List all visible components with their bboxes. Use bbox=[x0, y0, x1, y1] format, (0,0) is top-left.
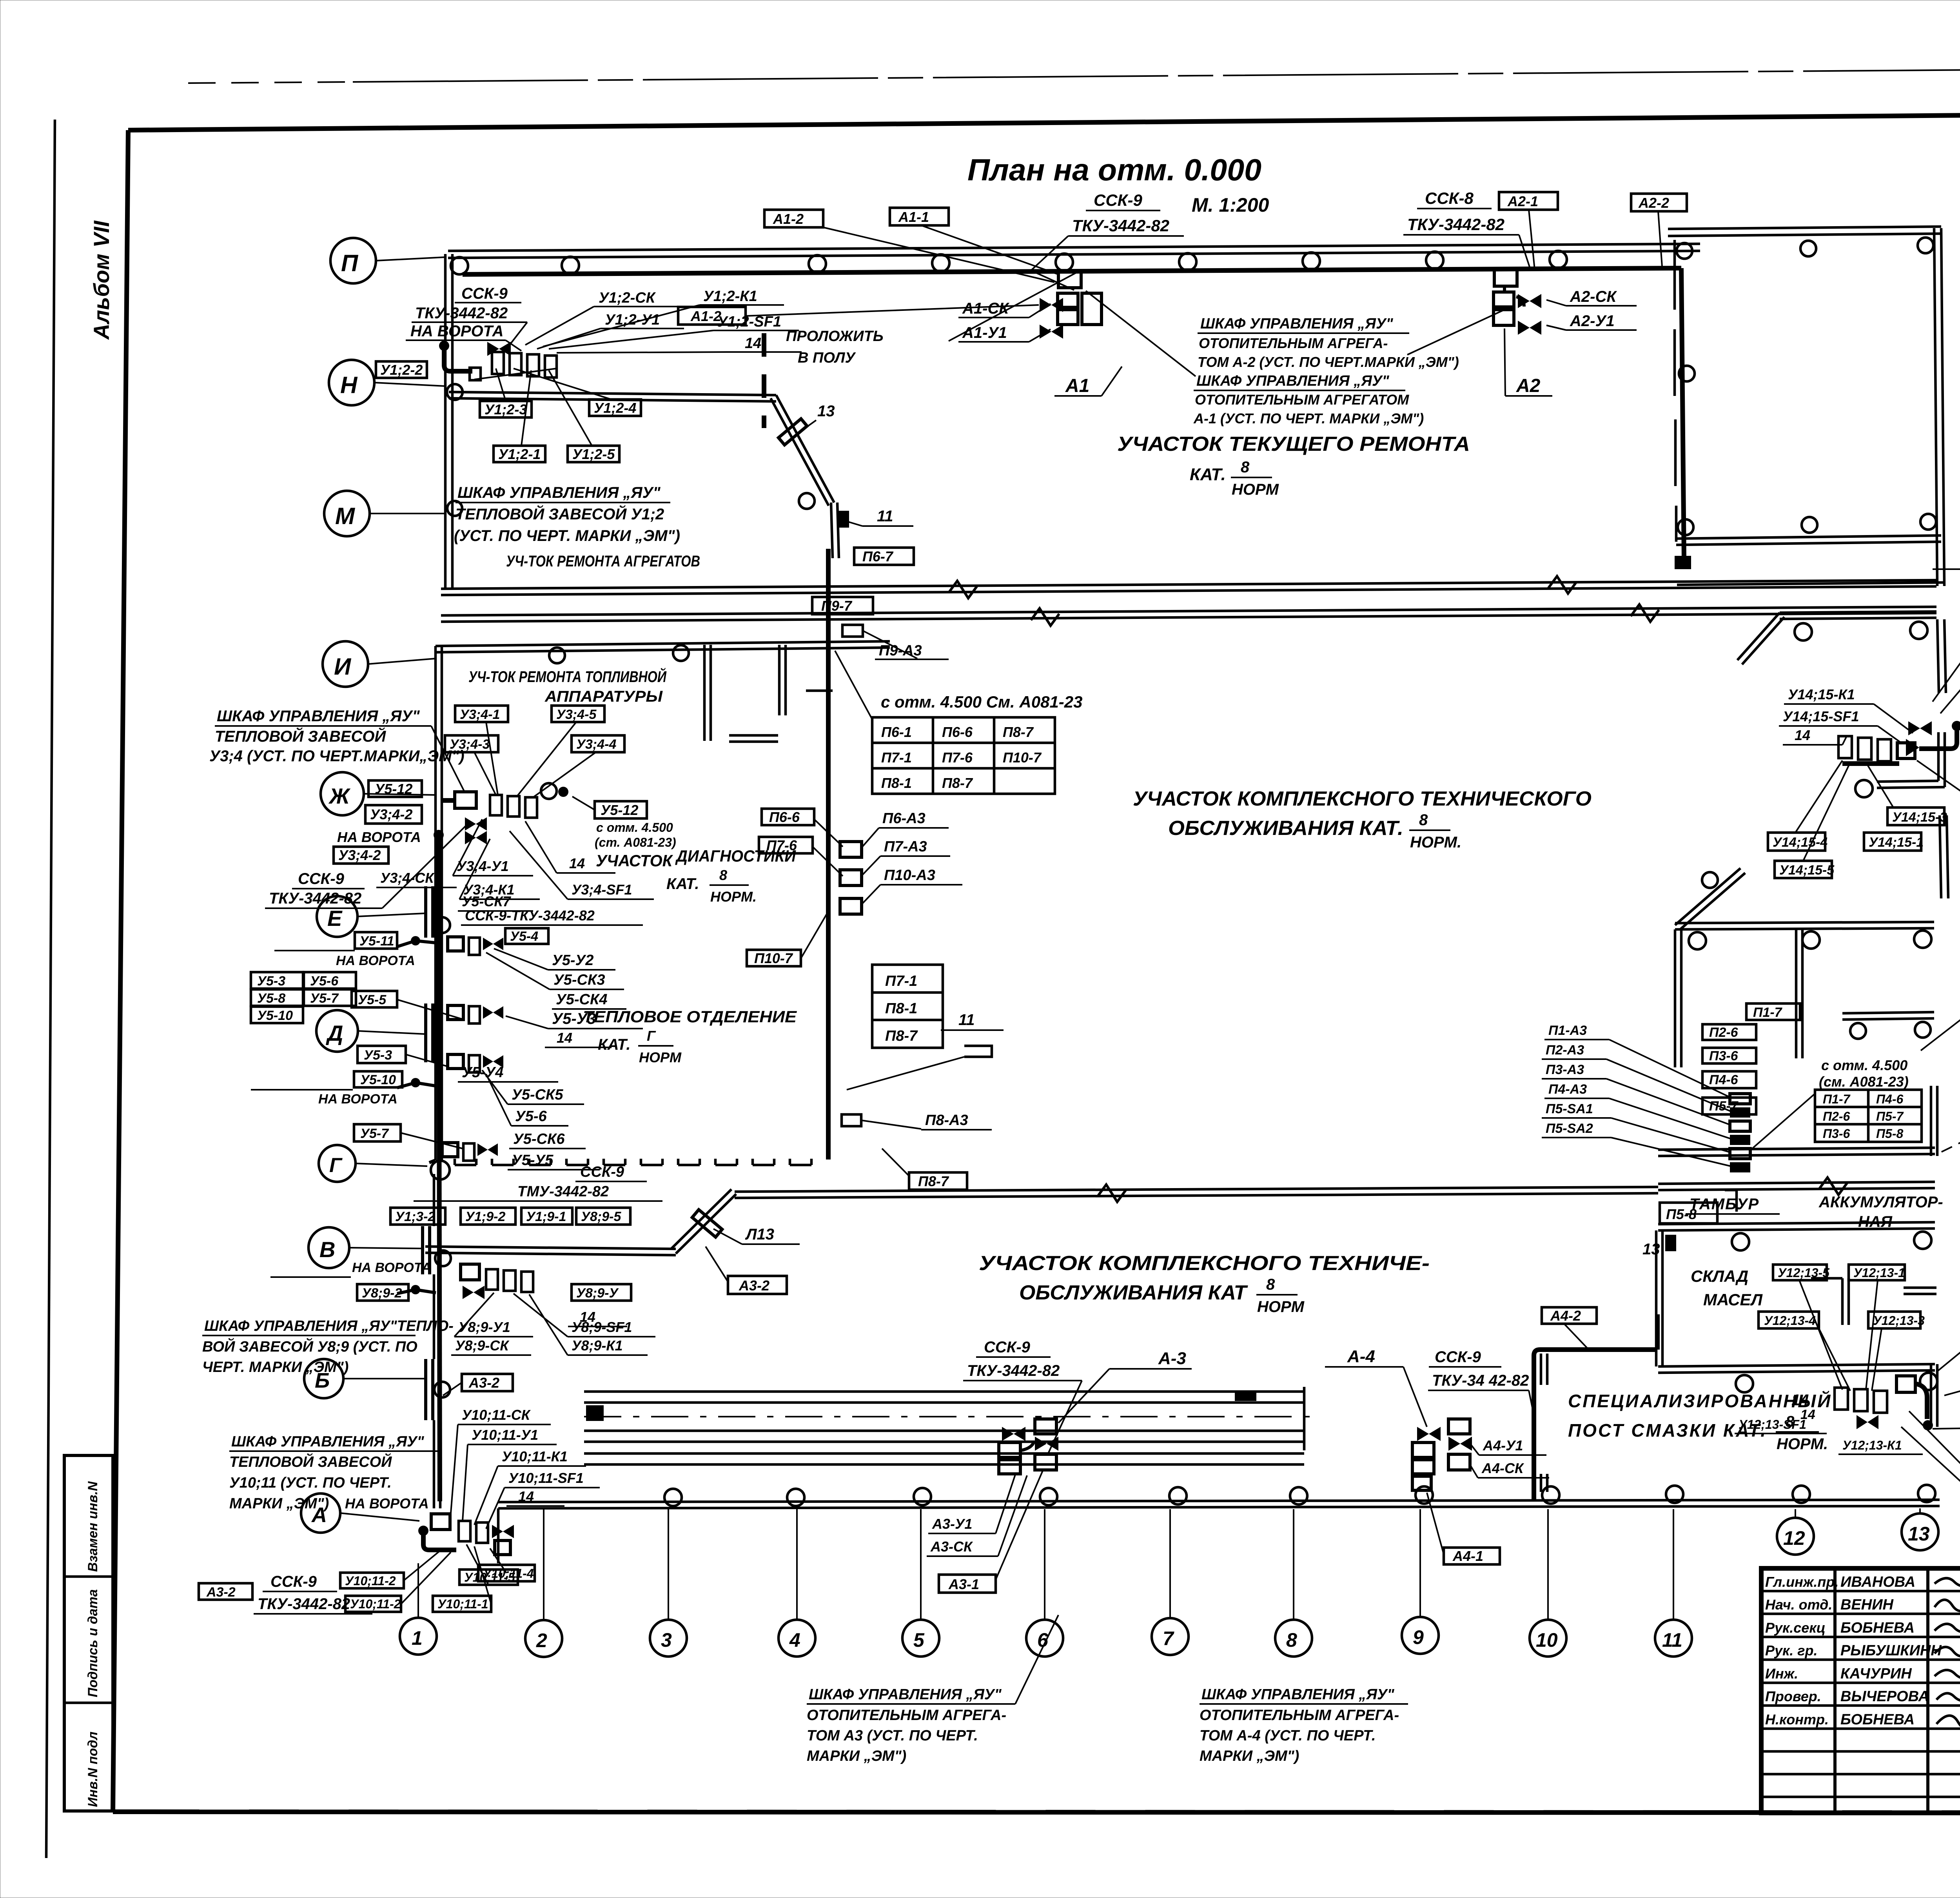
svg-text:М. 1:200: М. 1:200 bbox=[1192, 194, 1269, 216]
svg-text:У14;15-4: У14;15-4 bbox=[1773, 835, 1828, 850]
svg-text:КАТ.: КАТ. bbox=[666, 875, 699, 893]
svg-text:П4-6: П4-6 bbox=[1876, 1092, 1903, 1106]
svg-text:У12;13-3: У12;13-3 bbox=[1873, 1314, 1925, 1328]
svg-text:П2-А3: П2-А3 bbox=[1546, 1043, 1584, 1058]
top-right room inner left wall segments bbox=[1673, 240, 1676, 310]
number circle 13 bbox=[1902, 1513, 1938, 1550]
svg-text:У3;4-SF1: У3;4-SF1 bbox=[572, 882, 632, 898]
boxed label U5-12 bbox=[368, 780, 422, 797]
cable riser right bbox=[1681, 268, 1684, 561]
number circle 11 bbox=[1655, 1620, 1692, 1657]
svg-text:П8-7: П8-7 bbox=[942, 775, 973, 791]
svg-text:У8;9-2: У8;9-2 bbox=[362, 1286, 402, 1301]
svg-text:Альбом VII: Альбом VII bbox=[89, 220, 114, 340]
svg-text:Рук. гр.: Рук. гр. bbox=[1765, 1642, 1818, 1658]
boxed label A3-2 b bbox=[462, 1374, 513, 1391]
boxed label P6-7 bbox=[854, 548, 914, 565]
svg-text:ВЫЧЕРОВА: ВЫЧЕРОВА bbox=[1840, 1688, 1929, 1705]
boxed label U1;2-1 bbox=[494, 446, 545, 462]
svg-text:14: 14 bbox=[1795, 727, 1810, 743]
svg-text:А1-2: А1-2 bbox=[773, 211, 804, 227]
number circle 4 bbox=[779, 1620, 815, 1657]
svg-text:У3;4-2: У3;4-2 bbox=[370, 806, 412, 822]
boxed label A3-1 bbox=[939, 1575, 996, 1593]
wall row I double bbox=[436, 641, 890, 646]
boxed label U3;4-2 bbox=[365, 805, 422, 824]
boxed label U8;9-2 bbox=[357, 1284, 408, 1301]
break mark 3 bbox=[1548, 576, 1577, 593]
svg-text:П1-7: П1-7 bbox=[1823, 1092, 1851, 1106]
svg-text:П9-А3: П9-А3 bbox=[879, 642, 922, 659]
svg-text:У1;2-К1: У1;2-К1 bbox=[703, 288, 757, 305]
svg-text:П6-6: П6-6 bbox=[769, 809, 800, 825]
svg-text:НА ВОРОТА: НА ВОРОТА bbox=[410, 323, 503, 340]
svg-text:НОРМ.: НОРМ. bbox=[1410, 834, 1461, 851]
svg-text:7: 7 bbox=[1163, 1628, 1174, 1649]
svg-text:У8;9-SF1: У8;9-SF1 bbox=[572, 1319, 632, 1335]
A4 device cluster bbox=[1417, 1427, 1441, 1441]
svg-text:П5-7: П5-7 bbox=[1709, 1099, 1739, 1114]
svg-text:ШКАФ УПРАВЛЕНИЯ „ЯУ": ШКАФ УПРАВЛЕНИЯ „ЯУ" bbox=[231, 1433, 425, 1450]
svg-text:У3;4-У1: У3;4-У1 bbox=[457, 858, 509, 874]
boxed label A2-2 bbox=[1631, 194, 1687, 211]
A3 device cluster bbox=[1002, 1427, 1025, 1441]
svg-text:П6-6: П6-6 bbox=[942, 724, 973, 740]
svg-text:ДИАГНОСТИКИ: ДИАГНОСТИКИ bbox=[675, 847, 796, 865]
svg-text:ТКУ-3442-82: ТКУ-3442-82 bbox=[1407, 215, 1504, 234]
boxed label U1;2-2 bbox=[376, 361, 427, 378]
svg-text:ССК-9: ССК-9 bbox=[298, 870, 345, 887]
svg-text:14: 14 bbox=[557, 1030, 572, 1046]
svg-text:У5-3: У5-3 bbox=[364, 1048, 392, 1063]
column row letter E bbox=[317, 896, 358, 937]
boxed labels U8;9 row bbox=[390, 1208, 445, 1225]
right wall segments bbox=[1937, 619, 1939, 693]
svg-text:ССК-9: ССК-9 bbox=[1435, 1348, 1481, 1366]
svg-text:А1-СК: А1-СК bbox=[962, 300, 1009, 317]
main cable riser bbox=[826, 549, 831, 1159]
boxed labels U10;11 bottom bbox=[340, 1573, 404, 1588]
svg-text:П5-8: П5-8 bbox=[1876, 1127, 1903, 1141]
svg-text:ССК-9: ССК-9 bbox=[984, 1339, 1031, 1356]
svg-text:ТОМ А-4 (УСТ. ПО ЧЕРТ.: ТОМ А-4 (УСТ. ПО ЧЕРТ. bbox=[1200, 1727, 1376, 1744]
boxed label U5-3 low bbox=[358, 1046, 406, 1063]
svg-text:ССК-9: ССК-9 bbox=[580, 1164, 624, 1180]
svg-text:10: 10 bbox=[1536, 1629, 1558, 1651]
number circle 8 bbox=[1275, 1620, 1312, 1657]
svg-text:П2-6: П2-6 bbox=[1823, 1109, 1850, 1123]
svg-text:Л13: Л13 bbox=[745, 1226, 774, 1243]
svg-text:У10;11-У1: У10;11-У1 bbox=[472, 1427, 538, 1443]
svg-text:У8;9-К1: У8;9-К1 bbox=[572, 1337, 623, 1354]
svg-text:НОРМ: НОРМ bbox=[639, 1049, 682, 1065]
svg-text:У5-11: У5-11 bbox=[359, 934, 394, 949]
svg-text:У8;9-5: У8;9-5 bbox=[581, 1209, 621, 1224]
svg-text:П7-А3: П7-А3 bbox=[884, 838, 927, 855]
svg-text:1: 1 bbox=[412, 1627, 423, 1649]
svg-text:11: 11 bbox=[877, 508, 893, 525]
break mark 6 bbox=[1819, 1178, 1847, 1195]
svg-text:П5-SA1: П5-SA1 bbox=[1546, 1101, 1593, 1116]
column row letter V bbox=[309, 1227, 349, 1268]
svg-text:НОРМ: НОРМ bbox=[1232, 481, 1279, 498]
svg-text:П10-7: П10-7 bbox=[754, 950, 793, 966]
svg-text:ТЕПЛОВОЙ ЗАВЕСОЙ У1;2: ТЕПЛОВОЙ ЗАВЕСОЙ У1;2 bbox=[456, 504, 664, 523]
svg-text:МАСЕЛ: МАСЕЛ bbox=[1703, 1290, 1763, 1309]
interior partition 1 bbox=[703, 645, 706, 741]
break mark 5 bbox=[1098, 1185, 1126, 1202]
svg-text:У5-6: У5-6 bbox=[515, 1108, 547, 1125]
svg-text:НА ВОРОТА: НА ВОРОТА bbox=[336, 953, 415, 968]
svg-text:ШКАФ УПРАВЛЕНИЯ „ЯУ": ШКАФ УПРАВЛЕНИЯ „ЯУ" bbox=[457, 484, 661, 501]
svg-text:У3;4 (УСТ. ПО ЧЕРТ.МАРКИ„ЭМ"): У3;4 (УСТ. ПО ЧЕРТ.МАРКИ„ЭМ") bbox=[209, 748, 465, 765]
svg-text:Инж.: Инж. bbox=[1765, 1666, 1798, 1682]
long wall pair upper bbox=[441, 580, 1936, 589]
svg-text:Г: Г bbox=[329, 1154, 343, 1177]
A1 device cluster bbox=[1058, 271, 1081, 288]
U10;11 cluster bottom bbox=[418, 1526, 428, 1536]
svg-text:ТАМБУР: ТАМБУР bbox=[1690, 1196, 1759, 1213]
svg-text:ШКАФ УПРАВЛЕНИЯ „ЯУ"ТЕПЛО-: ШКАФ УПРАВЛЕНИЯ „ЯУ"ТЕПЛО- bbox=[204, 1318, 454, 1334]
svg-text:У5-12: У5-12 bbox=[375, 781, 412, 797]
crossed circle G bbox=[431, 1161, 450, 1179]
device rect column bbox=[1730, 1094, 1750, 1104]
U5 device cluster 1 bbox=[448, 937, 463, 951]
svg-text:А2-СК: А2-СК bbox=[1570, 288, 1617, 305]
svg-text:У12;13-4: У12;13-4 bbox=[1764, 1314, 1816, 1328]
wall verticals near A4 bbox=[1540, 1354, 1543, 1385]
boxed label A1-1 bbox=[890, 208, 949, 225]
svg-text:ССК-9: ССК-9 bbox=[1094, 191, 1142, 209]
svg-text:Гл.инж.пр.: Гл.инж.пр. bbox=[1765, 1574, 1838, 1590]
left wall below I bbox=[434, 646, 437, 1160]
number circle 12 bbox=[1777, 1518, 1814, 1555]
svg-text:ССК-9: ССК-9 bbox=[270, 1573, 317, 1590]
svg-text:УЧАСТОК: УЧАСТОК bbox=[596, 851, 673, 870]
svg-text:У1;2-1: У1;2-1 bbox=[498, 446, 541, 462]
svg-text:ТКУ-3442-82: ТКУ-3442-82 bbox=[967, 1362, 1060, 1379]
boxed label U5-5 bbox=[352, 991, 397, 1007]
svg-text:А-4: А-4 bbox=[1347, 1347, 1375, 1366]
svg-text:П9-7: П9-7 bbox=[821, 598, 853, 614]
boxed label P10-7 bbox=[747, 950, 801, 966]
svg-text:У1;2-5: У1;2-5 bbox=[572, 446, 615, 462]
svg-text:А3-2: А3-2 bbox=[739, 1277, 769, 1294]
boxed label U5-7 bbox=[354, 1124, 401, 1141]
cable tray under top wall bbox=[463, 268, 1681, 274]
svg-text:У5-5: У5-5 bbox=[358, 993, 387, 1007]
svg-text:У1;2-У1: У1;2-У1 bbox=[605, 312, 660, 328]
svg-text:(УСТ. ПО ЧЕРТ. МАРКИ „ЭМ"): (УСТ. ПО ЧЕРТ. МАРКИ „ЭМ") bbox=[454, 527, 680, 544]
column row letter Zh bbox=[321, 772, 364, 815]
leaders from cluster to boxed labels bbox=[496, 368, 506, 401]
svg-text:ШКАФ УПРАВЛЕНИЯ „ЯУ": ШКАФ УПРАВЛЕНИЯ „ЯУ" bbox=[1196, 373, 1390, 389]
shinomontazh top wall bbox=[1780, 611, 1936, 613]
svg-text:АККУМУЛЯТОР-: АККУМУЛЯТОР- bbox=[1818, 1194, 1943, 1211]
svg-text:ТКУ-3442-82: ТКУ-3442-82 bbox=[415, 305, 508, 322]
svg-text:А2: А2 bbox=[1516, 376, 1541, 396]
svg-text:У5-4: У5-4 bbox=[510, 929, 538, 944]
svg-text:А4-СК: А4-СК bbox=[1481, 1460, 1524, 1476]
svg-text:УЧАСТОК КОМПЛЕКСНОГО ТЕХНИЧЕ: УЧАСТОК КОМПЛЕКСНОГО ТЕХНИЧЕ- bbox=[979, 1252, 1430, 1275]
svg-text:У5-6: У5-6 bbox=[310, 974, 339, 989]
svg-text:ВОЙ ЗАВЕСОЙ У8;9 (УСТ. ПО: ВОЙ ЗАВЕСОЙ У8;9 (УСТ. ПО bbox=[202, 1337, 417, 1355]
svg-text:ССК-9: ССК-9 bbox=[461, 285, 508, 302]
svg-text:У1;9-1: У1;9-1 bbox=[526, 1209, 566, 1224]
door jamb E bbox=[424, 886, 427, 938]
svg-text:ССК-8: ССК-8 bbox=[1425, 189, 1474, 207]
svg-text:У10;11-SF1: У10;11-SF1 bbox=[508, 1470, 584, 1486]
boxed label A1-2 bbox=[764, 210, 823, 227]
svg-text:ТОМ А3 (УСТ. ПО ЧЕРТ.: ТОМ А3 (УСТ. ПО ЧЕРТ. bbox=[807, 1727, 978, 1744]
svg-text:П5-7: П5-7 bbox=[1876, 1109, 1904, 1123]
leaders to device rects bbox=[1609, 1040, 1731, 1098]
svg-text:5: 5 bbox=[913, 1629, 925, 1651]
U5 device cluster 3 bbox=[448, 1054, 463, 1069]
lower single line of right room bbox=[1677, 582, 1944, 585]
svg-text:ПОСТ СМАЗКИ КАТ.: ПОСТ СМАЗКИ КАТ. bbox=[1568, 1420, 1767, 1441]
dashed heater wall row G bbox=[455, 1164, 811, 1167]
svg-text:НА ВОРОТА: НА ВОРОТА bbox=[337, 829, 421, 845]
svg-text:У5-12: У5-12 bbox=[601, 802, 638, 818]
svg-text:ШКАФ УПРАВЛЕНИЯ „ЯУ": ШКАФ УПРАВЛЕНИЯ „ЯУ" bbox=[1200, 316, 1394, 332]
svg-text:У14;15-1: У14;15-1 bbox=[1869, 835, 1924, 850]
sklad masel walls bbox=[1841, 1278, 1844, 1325]
svg-text:У8;9-СК: У8;9-СК bbox=[455, 1337, 510, 1354]
svg-text:У5-7: У5-7 bbox=[360, 1126, 389, 1141]
U5 device cluster 4 bbox=[442, 1143, 458, 1157]
svg-text:Инв.N подл: Инв.N подл bbox=[85, 1731, 100, 1807]
svg-text:У5-СК4: У5-СК4 bbox=[556, 991, 607, 1008]
sheet frame bottom bbox=[113, 1812, 1960, 1813]
svg-text:11: 11 bbox=[1662, 1629, 1682, 1651]
svg-text:ОБСЛУЖИВАНИЯ КАТ.: ОБСЛУЖИВАНИЯ КАТ. bbox=[1168, 817, 1403, 840]
svg-text:БОБНЕВА: БОБНЕВА bbox=[1840, 1620, 1915, 1636]
svg-text:Подпись и дата: Подпись и дата bbox=[85, 1589, 100, 1697]
svg-text:Провер.: Провер. bbox=[1765, 1688, 1821, 1704]
column circles bottom bbox=[664, 1489, 682, 1506]
column row letter G bbox=[319, 1145, 356, 1182]
L13 tilted connector bbox=[692, 1210, 722, 1237]
number circle 3 bbox=[650, 1620, 687, 1657]
wall above zaryadnaya with door bbox=[1842, 1012, 1934, 1013]
names table rows bbox=[1761, 1590, 1960, 1593]
svg-text:А4-2: А4-2 bbox=[1550, 1308, 1581, 1324]
svg-text:ВЕНИН: ВЕНИН bbox=[1840, 1597, 1894, 1613]
top-right room inner bottom wall bbox=[1676, 535, 1941, 539]
leaders from boxes to cluster bbox=[486, 722, 498, 795]
diagonal chamfer wall bbox=[676, 1194, 736, 1254]
svg-text:П3-6: П3-6 bbox=[1709, 1049, 1739, 1063]
svg-text:ОБСЛУЖИВАНИЯ КАТ: ОБСЛУЖИВАНИЯ КАТ bbox=[1019, 1281, 1248, 1304]
svg-text:П1-7: П1-7 bbox=[1753, 1005, 1783, 1020]
svg-text:У14;15-3: У14;15-3 bbox=[1892, 810, 1947, 825]
dashed line to be laid in floor bbox=[762, 333, 766, 428]
svg-text:П4-6: П4-6 bbox=[1709, 1072, 1739, 1087]
P8-A3 connector bbox=[842, 1114, 861, 1126]
svg-text:У5-7: У5-7 bbox=[310, 991, 339, 1006]
svg-text:У5-10: У5-10 bbox=[360, 1072, 396, 1087]
svg-text:9: 9 bbox=[1413, 1626, 1424, 1648]
svg-text:А2-2: А2-2 bbox=[1638, 195, 1669, 211]
left wall lower segments bbox=[433, 1174, 436, 1226]
svg-text:2: 2 bbox=[536, 1629, 547, 1651]
svg-text:А2-1: А2-1 bbox=[1507, 193, 1538, 209]
svg-text:У10;11-К1: У10;11-К1 bbox=[502, 1448, 568, 1464]
svg-text:Г: Г bbox=[647, 1028, 656, 1044]
svg-text:4: 4 bbox=[789, 1629, 800, 1651]
wall left (double) bbox=[444, 254, 447, 588]
svg-text:Б: Б bbox=[315, 1369, 330, 1392]
svg-text:У1;9-2: У1;9-2 bbox=[465, 1209, 505, 1224]
boxed label P9-7 bbox=[812, 597, 873, 614]
interior partition 2 bbox=[778, 645, 781, 715]
boxed label U5-11 bbox=[355, 932, 397, 949]
P9-A3 connector bbox=[842, 625, 863, 637]
svg-text:У5-У4: У5-У4 bbox=[462, 1064, 503, 1081]
svg-text:П6-7: П6-7 bbox=[862, 548, 894, 564]
svg-text:БОБНЕВА: БОБНЕВА bbox=[1840, 1711, 1915, 1728]
svg-text:А2-У1: А2-У1 bbox=[1570, 312, 1615, 330]
svg-text:У3;4-2: У3;4-2 bbox=[338, 847, 381, 863]
svg-text:И: И bbox=[334, 653, 352, 680]
svg-text:У5-8: У5-8 bbox=[257, 991, 285, 1006]
svg-text:Рук.секц: Рук.секц bbox=[1765, 1620, 1826, 1636]
svg-text:НОРМ: НОРМ bbox=[1257, 1298, 1305, 1316]
main title block frame bbox=[1761, 1568, 1960, 1813]
shinomontazh room walls bbox=[1675, 922, 1934, 923]
svg-text:А-1 (УСТ. ПО ЧЕРТ. МАРКИ „ЭМ": А-1 (УСТ. ПО ЧЕРТ. МАРКИ „ЭМ") bbox=[1193, 410, 1424, 426]
svg-text:МАРКИ „ЭМ"): МАРКИ „ЭМ") bbox=[1200, 1748, 1299, 1764]
boxed label A3-2 bottom left bbox=[199, 1583, 252, 1600]
diagonal wall N (double) bbox=[776, 395, 834, 503]
top-right room right wall bbox=[1934, 228, 1937, 586]
svg-text:8: 8 bbox=[1286, 1629, 1297, 1651]
svg-text:ОТОПИТЕЛЬНЫМ АГРЕГА-: ОТОПИТЕЛЬНЫМ АГРЕГА- bbox=[1200, 1707, 1399, 1724]
svg-text:У5-СК5: У5-СК5 bbox=[512, 1087, 563, 1103]
svg-text:8: 8 bbox=[1786, 1413, 1795, 1430]
svg-text:П6-А3: П6-А3 bbox=[882, 810, 926, 827]
svg-text:ОТОПИТЕЛЬНЫМ АГРЕГА-: ОТОПИТЕЛЬНЫМ АГРЕГА- bbox=[1199, 335, 1388, 351]
svg-text:Взамен инв.N: Взамен инв.N bbox=[85, 1481, 100, 1572]
boxed label A1-2 second bbox=[678, 307, 746, 325]
svg-text:П10-А3: П10-А3 bbox=[884, 867, 935, 884]
svg-text:13: 13 bbox=[1908, 1523, 1930, 1545]
break mark 4 bbox=[1631, 604, 1659, 622]
boxed label U5-10 bbox=[354, 1071, 402, 1087]
U1;2 device cluster bbox=[439, 341, 449, 351]
svg-text:ТКУ-3442-82: ТКУ-3442-82 bbox=[258, 1595, 350, 1613]
A2 device cluster bbox=[1494, 270, 1517, 286]
column row letter P bbox=[330, 238, 376, 283]
svg-text:А1: А1 bbox=[1065, 376, 1089, 396]
column circles top wall bbox=[451, 257, 468, 274]
number circle 9 bbox=[1402, 1617, 1439, 1654]
svg-text:ИВАНОВА: ИВАНОВА bbox=[1840, 1574, 1915, 1590]
svg-text:А: А bbox=[311, 1503, 327, 1527]
svg-text:У5-3: У5-3 bbox=[257, 974, 285, 989]
door jamb B bbox=[424, 1359, 427, 1420]
svg-text:У5-10: У5-10 bbox=[257, 1008, 293, 1023]
label table 3x3 bbox=[872, 717, 1055, 794]
boxed label U8;9-U bbox=[572, 1284, 631, 1301]
svg-text:Н: Н bbox=[340, 372, 358, 398]
svg-text:ТМУ-3442-82: ТМУ-3442-82 bbox=[517, 1183, 609, 1200]
svg-text:У14;15-5: У14;15-5 bbox=[1779, 863, 1835, 878]
svg-text:3: 3 bbox=[661, 1629, 672, 1651]
svg-text:П5-SA2: П5-SA2 bbox=[1546, 1121, 1593, 1136]
boxed labels U14;15-3 4 1 5 bbox=[1887, 807, 1944, 825]
svg-text:П3-А3: П3-А3 bbox=[1546, 1062, 1584, 1077]
svg-text:А3-У1: А3-У1 bbox=[932, 1516, 972, 1532]
vertical wall after diagonal bbox=[831, 503, 833, 558]
svg-text:У14;15-К1: У14;15-К1 bbox=[1788, 686, 1855, 702]
svg-text:НОРМ.: НОРМ. bbox=[710, 889, 757, 905]
svg-text:УЧ-ТОК РЕМОНТА АГРЕГАТОВ: УЧ-ТОК РЕМОНТА АГРЕГАТОВ bbox=[506, 553, 700, 570]
svg-text:У1;2-3: У1;2-3 bbox=[485, 401, 527, 417]
svg-text:П7-6: П7-6 bbox=[942, 749, 973, 766]
door jamb D bbox=[424, 1003, 427, 1062]
svg-text:14: 14 bbox=[569, 855, 585, 871]
U8;9 device cluster bbox=[461, 1264, 479, 1280]
column row letter N bbox=[329, 360, 374, 405]
boxed label U3;4-2 second bbox=[334, 847, 388, 864]
bottom wall sklad bbox=[1658, 1364, 1935, 1366]
svg-text:П8-А3: П8-А3 bbox=[925, 1112, 968, 1129]
svg-text:В: В bbox=[319, 1237, 335, 1262]
svg-text:А4-1: А4-1 bbox=[1452, 1548, 1483, 1564]
svg-text:КАТ.: КАТ. bbox=[598, 1036, 630, 1053]
svg-text:П8-1: П8-1 bbox=[881, 775, 912, 791]
svg-text:НОРМ.: НОРМ. bbox=[1777, 1435, 1828, 1453]
svg-text:У12;13-5: У12;13-5 bbox=[1778, 1266, 1830, 1280]
cable end tick 13 bbox=[1675, 556, 1691, 569]
interior partition horizontal bbox=[729, 734, 778, 737]
svg-text:Н.контр.: Н.контр. bbox=[1765, 1711, 1829, 1727]
svg-text:У10;11-4: У10;11-4 bbox=[483, 1566, 534, 1580]
svg-text:А1-2: А1-2 bbox=[690, 308, 721, 324]
svg-text:УЧ-ТОК РЕМОНТА ТОПЛИВНОЙ: УЧ-ТОК РЕМОНТА ТОПЛИВНОЙ bbox=[468, 667, 667, 686]
svg-text:8: 8 bbox=[1419, 811, 1428, 829]
svg-text:П1-А3: П1-А3 bbox=[1548, 1023, 1587, 1038]
svg-text:У5-СК6: У5-СК6 bbox=[513, 1131, 565, 1147]
svg-text:План на отм. 0.000: План на отм. 0.000 bbox=[967, 152, 1261, 187]
svg-text:14: 14 bbox=[745, 335, 761, 352]
svg-text:ШКАФ УПРАВЛЕНИЯ „ЯУ": ШКАФ УПРАВЛЕНИЯ „ЯУ" bbox=[217, 708, 420, 725]
boxed labels U3;4-1 U3;4-5 bbox=[455, 706, 508, 722]
top-right room top wall bbox=[1668, 227, 1941, 229]
number circle 5 bbox=[902, 1620, 939, 1657]
svg-text:У5-СК3: У5-СК3 bbox=[554, 972, 605, 988]
svg-text:с отм. 4.500: с отм. 4.500 bbox=[1821, 1057, 1907, 1073]
svg-text:У3;4-СК: У3;4-СК bbox=[380, 870, 435, 886]
svg-text:12: 12 bbox=[1783, 1527, 1805, 1549]
svg-text:ОТОПИТЕЛЬНЫМ АГРЕГА-: ОТОПИТЕЛЬНЫМ АГРЕГА- bbox=[807, 1707, 1006, 1724]
boxed label P8-7 low bbox=[909, 1172, 967, 1190]
svg-text:У1;2-4: У1;2-4 bbox=[594, 400, 636, 416]
svg-text:НАЯ: НАЯ bbox=[1858, 1213, 1893, 1230]
connector rects on riser bbox=[840, 842, 862, 857]
svg-text:ТЕПЛОВОЙ ЗАВЕСОЙ: ТЕПЛОВОЙ ЗАВЕСОЙ bbox=[215, 727, 387, 745]
leader from A1-1 box bbox=[921, 225, 1058, 274]
wall row N (double) bbox=[449, 392, 776, 395]
svg-text:8: 8 bbox=[719, 867, 727, 883]
svg-text:А3-2: А3-2 bbox=[468, 1375, 499, 1391]
boxed label P7-6 bbox=[759, 837, 813, 853]
svg-text:У12;13-1: У12;13-1 bbox=[1853, 1266, 1905, 1280]
svg-text:с отм. 4.500 См. А081-23: с отм. 4.500 См. А081-23 bbox=[881, 693, 1083, 711]
wall row V double bbox=[425, 1247, 676, 1249]
